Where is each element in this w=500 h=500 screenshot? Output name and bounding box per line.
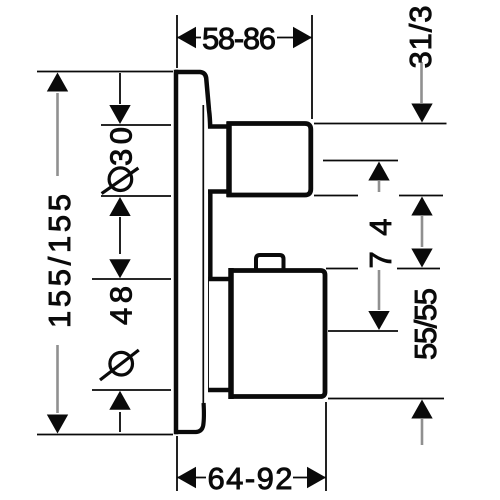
svg-text:31/3: 31/3 [403, 6, 438, 69]
svg-text:58-86: 58-86 [202, 21, 276, 56]
svg-text:55/55: 55/55 [408, 288, 443, 360]
svg-text:64-92: 64-92 [208, 461, 293, 496]
